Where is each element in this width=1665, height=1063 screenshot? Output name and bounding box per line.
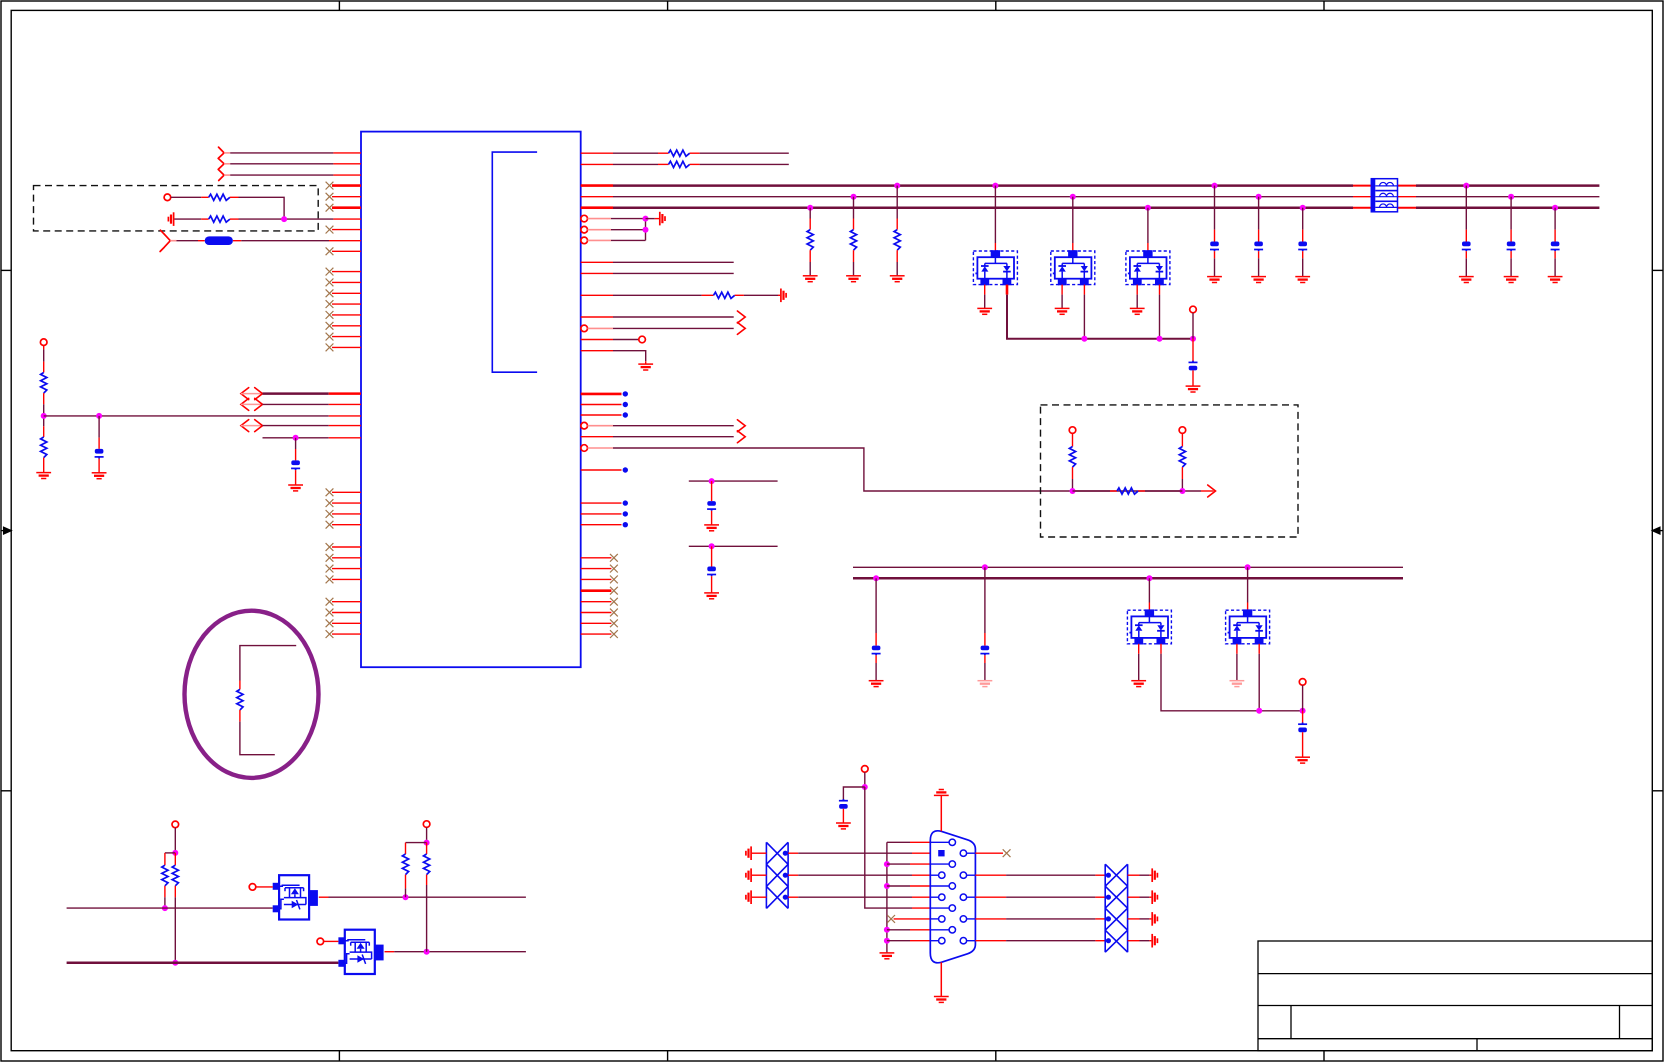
signal ground left [168,212,173,226]
row 425.7 arrow out with pale pin [581,422,588,429]
row1 [581,152,613,154]
double arrow row1 (thick) [241,388,263,400]
bus caps left of choke: col 1214.5 [1212,183,1218,189]
gate pin circle [249,884,256,891]
nc pin [326,543,361,551]
pin circle feeding net [862,766,869,773]
capacitor C? [95,449,104,459]
resistor R? [237,689,243,710]
pin J? circle [164,194,171,201]
ground [704,593,719,599]
junction [424,840,430,846]
wire jog [165,852,175,854]
signal ground right [660,212,665,226]
pin stub [333,152,361,154]
wire down to DB9 pin5 row [865,787,912,908]
resistor R? [669,150,690,156]
ground [890,276,905,282]
ground (faded) [978,681,993,687]
pin circle + cap at end of TVS common wire [1190,336,1196,342]
capacitor C? [707,501,716,511]
TVS array D5 [1245,564,1251,570]
row 317 arrow out [581,316,613,318]
ground [880,953,895,959]
pale pin circle rows 218.6/229.7/240.4 [581,215,588,222]
junction [96,413,102,419]
resistor R? [714,292,735,298]
connector J1 DB9 [930,831,975,963]
signal ground right [781,289,786,303]
nc pin [326,247,361,255]
nc pin [326,226,361,234]
drain wire [385,951,395,953]
TVS array D1 [992,183,998,189]
resistor R? left [405,843,407,854]
ground [1186,386,1201,392]
ground [977,308,992,314]
nc pin [326,521,361,529]
title block [1258,941,1652,1051]
resistor R? right [174,853,176,865]
bus A thick [581,184,613,187]
nc pin [326,193,361,201]
pull resistor col 2 [851,194,857,200]
junction [172,850,178,856]
junction [172,960,178,966]
IC U1 main body [361,132,581,668]
wire jog [406,842,427,844]
pin stub [333,163,361,165]
ground [1130,308,1145,314]
common mode choke FB1 [1371,179,1397,212]
wire row1 [67,907,273,909]
ground [803,276,818,282]
left signal grounds [746,846,751,860]
nc pin [326,609,361,617]
col 1258.6 [1256,194,1262,200]
ground [1295,757,1310,763]
row2 [581,163,613,165]
pin circle [172,821,179,828]
DB9 shield top ground [940,795,942,831]
nc pin [326,322,361,330]
nc pin [326,619,361,627]
ground [92,473,107,479]
wire down [295,438,297,449]
bus thin [853,566,1403,568]
row 448 long net into dashed box [581,445,588,452]
col 1511.1 [1508,194,1514,200]
ground [1251,277,1266,283]
resistor R? lower [41,437,47,458]
cap col 876.1 [873,575,879,581]
junction [403,894,409,900]
wire [241,240,329,242]
nc pin [326,268,361,276]
series resistor R? [1073,490,1111,492]
pull resistor col 3 [894,183,900,189]
frame mid-left arrow [1,527,11,534]
ground [638,364,653,370]
ground [1504,277,1519,283]
resistor R? [209,216,230,222]
nc pin [326,576,361,584]
wire [239,218,334,220]
ground [288,485,303,491]
wire seg 2 [689,545,778,547]
wire [43,349,45,361]
nc pin [326,311,361,319]
nc pin [326,333,361,341]
drain wire [319,896,329,898]
transistor Q2 [338,930,383,974]
junction [41,413,47,419]
junction [293,435,299,441]
ground [1459,277,1474,283]
frame mid-right arrow [1652,527,1663,534]
double arrow row3 [241,420,263,432]
nc pin [326,565,361,573]
right nc x row 853.2 [975,852,1003,854]
ferrite bead L? [205,236,233,245]
capacitor C? [291,460,300,470]
right wires DB9 to block [975,874,1006,876]
row 436.7 arrow out [581,436,613,438]
resistor R? right [426,843,428,854]
pin stub [333,218,361,220]
TVS array D2 [1070,194,1076,200]
nc pin [326,630,361,638]
nc pin [326,510,361,518]
nc pin [326,554,361,562]
right wires to signal grounds [1128,874,1140,876]
wire row1 [224,152,230,154]
tie vertical [645,219,647,241]
ground [1055,308,1070,314]
wire row with cap [263,437,329,439]
resistor R? left [164,853,166,865]
end: circle pin + cap [1300,708,1306,714]
bus thick [853,577,1403,580]
nc x on row 918.9 [887,915,895,923]
bus C thick [581,206,613,209]
ground [36,473,51,479]
ground [836,823,851,829]
ground rail vertical with branches [886,842,888,953]
wire [177,240,199,242]
ground [846,276,861,282]
row 339.5 wire to open pin [581,339,613,341]
net wire to IC [44,415,329,417]
bus B thin [581,196,613,198]
TVS array D4 [1146,575,1152,581]
ground (faded) [1230,681,1245,687]
col 1555.1 [1552,205,1558,211]
right pullup pair: pin circle [423,821,430,828]
wire top [240,646,296,681]
dot stubs rows 393.9(thick)/404.5/415 [581,393,622,396]
ground [1548,277,1563,283]
ground [1131,681,1146,687]
wire bottom [240,722,275,755]
capacitor C? [707,567,716,577]
wire rows 262.3 273.4 [581,261,613,263]
left twisted block T1 [766,842,788,908]
resistor R? [1069,447,1075,468]
ground [869,681,884,687]
pin circle [40,339,47,346]
gate pin circle [317,938,324,945]
resistor R? upper [41,373,47,394]
dot stub row 470 [581,469,622,471]
pin stub [329,240,361,242]
nc pin thick [326,204,361,212]
wire row2 [224,163,230,165]
nc pin [326,598,361,606]
wire row2 thick [67,962,339,965]
resistor R? [1179,447,1185,468]
ground [704,525,719,531]
port arrow [160,234,170,251]
resistor R? [669,161,690,167]
cap col 984.9 [982,564,988,570]
IC right nc pins [581,554,618,562]
wire row3 [224,174,230,176]
wire down to cap [98,416,100,438]
pull resistor col 1 [807,205,813,211]
bus caps right of choke: col 1466.3 [1463,183,1469,189]
pin circle [1069,427,1076,434]
wires block to DB9 [788,852,798,854]
right twisted block T2 [1105,864,1127,952]
wire to signal ground [646,218,655,220]
nc pin [326,300,361,308]
wire [171,196,202,198]
pin circle [1179,427,1186,434]
row 350.7 wire to ground [581,350,613,352]
capacitor C? [1189,361,1198,371]
IC U1 inner bracket [492,152,537,372]
nc pin [326,289,361,297]
junction [162,905,168,911]
ellipse Y1 [185,611,319,778]
junction [424,949,430,955]
col 1302.7 [1300,205,1306,211]
wire [43,404,45,426]
nc pin [326,344,361,352]
capacitor C? [839,799,848,809]
port arrow zigzag rows1-3 [218,147,224,180]
capacitor C? [1298,723,1307,733]
TVS array D3 [1145,205,1151,211]
branch to cap [843,787,864,801]
nc pin [326,279,361,287]
transistor Q1 [273,875,318,919]
nc pin [326,488,361,496]
nc pin [326,499,361,507]
DB9 shield bottom ground [940,962,942,996]
wire seg 1 [689,480,778,482]
double arrow row2 [241,398,263,410]
row 295.3 resistor to signal ground [581,294,613,296]
wire [174,828,176,853]
ground [1295,277,1310,283]
pin stub [333,174,361,176]
wire to junction [239,197,285,219]
ground [1207,277,1222,283]
dot stub rows 503.1/513.9/524.7 [581,502,622,504]
wire [174,218,201,220]
row 328.4 arrow out with pale pin [581,325,588,332]
resistor R? [209,194,230,200]
nc pin thick [326,182,361,190]
junction [281,216,287,222]
